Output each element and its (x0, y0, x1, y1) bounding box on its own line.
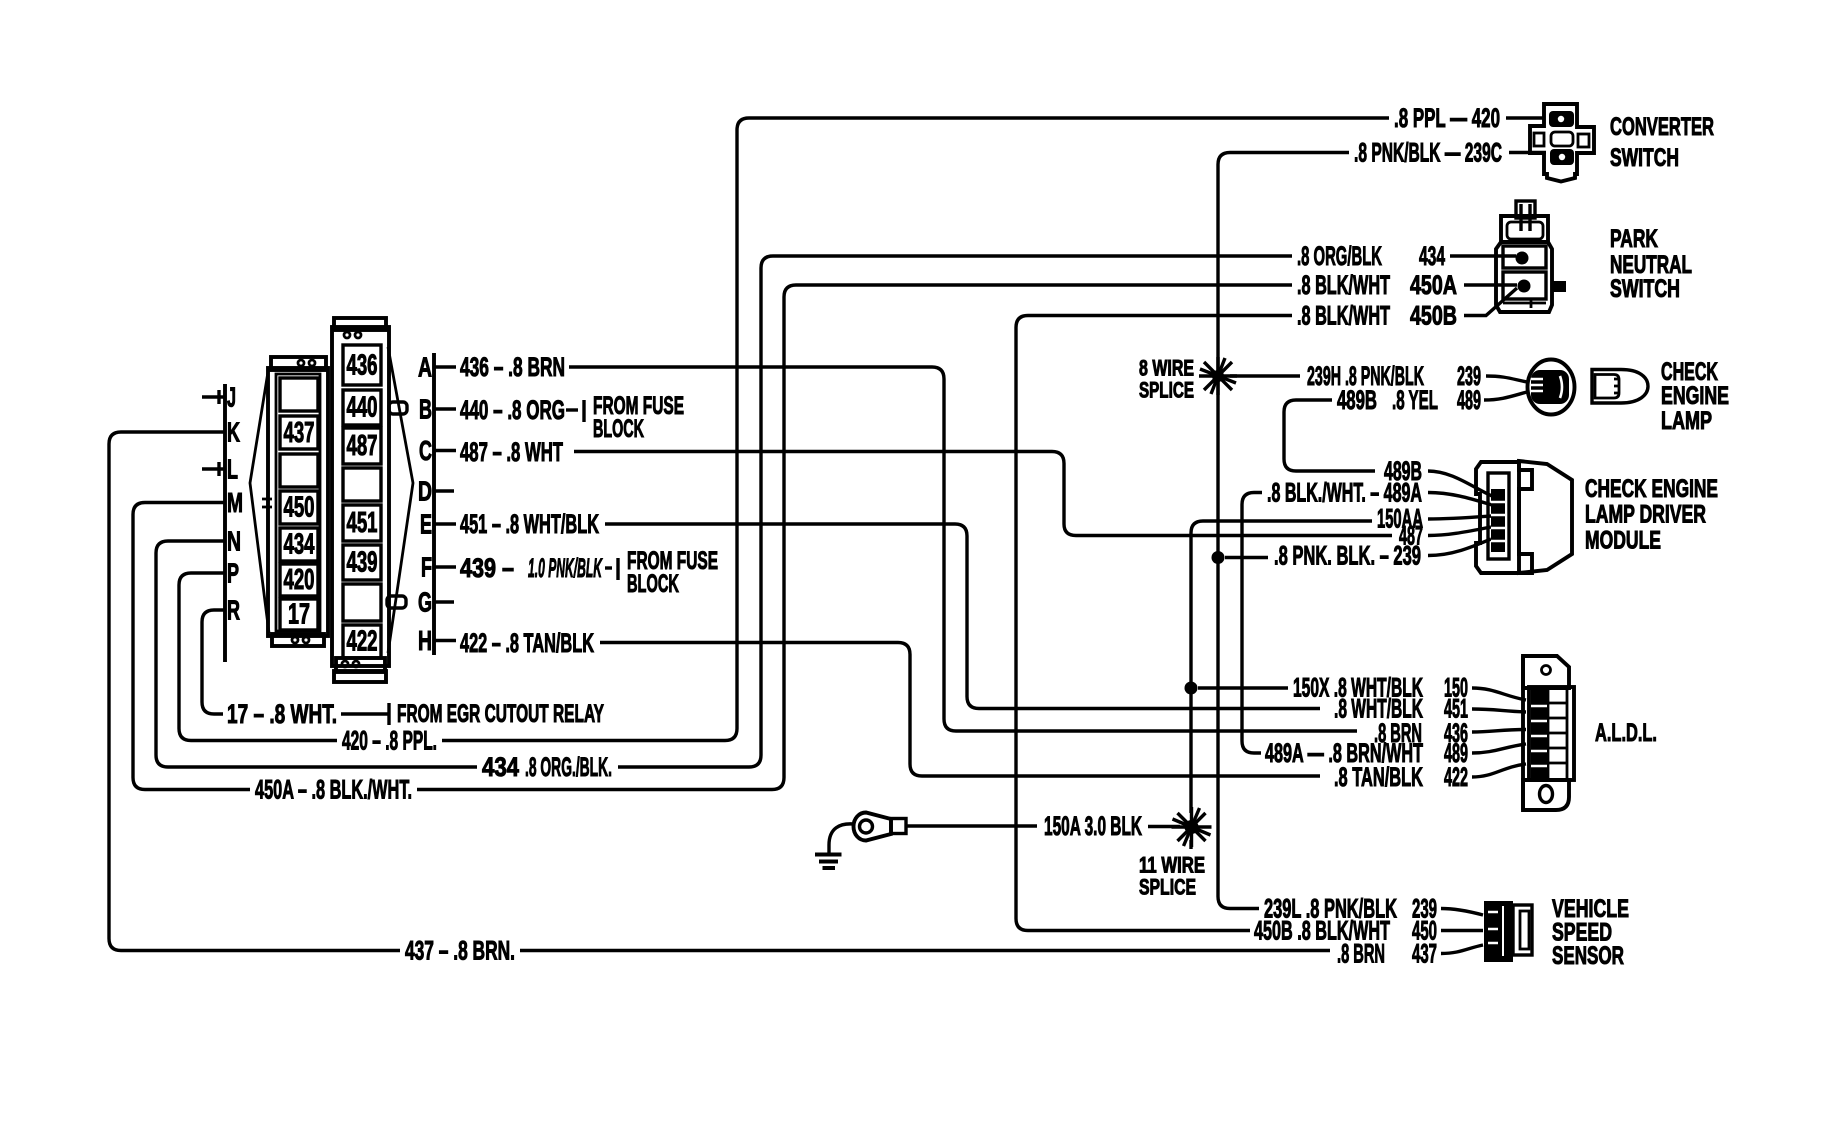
svg-text:N: N (227, 526, 241, 557)
svg-text:PARK: PARK (1610, 225, 1658, 253)
svg-text:SPLICE: SPLICE (1139, 378, 1194, 403)
svg-text:R: R (227, 595, 240, 626)
svg-text:BLOCK: BLOCK (627, 570, 679, 598)
svg-text:G: G (418, 587, 432, 618)
svg-text:489B: 489B (1337, 385, 1377, 415)
svg-text:434: 434 (482, 752, 519, 782)
svg-text:C: C (419, 435, 432, 466)
svg-text:.8 TAN/BLK: .8 TAN/BLK (1334, 762, 1423, 792)
svg-text:434: 434 (1419, 241, 1445, 271)
svg-text:489: 489 (1457, 385, 1481, 415)
svg-text:451 – .8 WHT/BLK: 451 – .8 WHT/BLK (460, 509, 599, 539)
svg-text:B: B (419, 394, 432, 425)
svg-text:.8 PPL — 420: .8 PPL — 420 (1394, 103, 1500, 133)
svg-text:450B: 450B (1410, 301, 1457, 331)
svg-text:CHECK ENGINE: CHECK ENGINE (1585, 475, 1718, 503)
svg-text:A: A (418, 352, 432, 383)
svg-text:436 – .8 BRN: 436 – .8 BRN (460, 352, 565, 382)
svg-text:SPLICE: SPLICE (1139, 875, 1196, 900)
svg-text:.8 BLK/WHT: .8 BLK/WHT (1297, 270, 1390, 300)
svg-text:451: 451 (347, 507, 378, 539)
svg-text:SENSOR: SENSOR (1552, 942, 1624, 970)
svg-text:CONVERTER: CONVERTER (1610, 113, 1714, 141)
svg-text:.8 BRN: .8 BRN (1337, 939, 1385, 969)
svg-text:440: 440 (347, 392, 378, 424)
svg-text:437 – .8 BRN.: 437 – .8 BRN. (405, 936, 515, 966)
svg-text:F: F (421, 552, 432, 583)
svg-text:420 – .8 PPL.: 420 – .8 PPL. (342, 726, 437, 756)
svg-text:.8 BLK/WHT: .8 BLK/WHT (1297, 301, 1390, 331)
svg-text:422: 422 (1444, 762, 1468, 792)
svg-text:M: M (227, 487, 243, 518)
svg-text:D: D (418, 476, 432, 507)
svg-text:.8 YEL: .8 YEL (1392, 385, 1438, 415)
svg-text:LAMP: LAMP (1661, 407, 1712, 435)
svg-text:450: 450 (284, 492, 315, 524)
svg-text:ENGINE: ENGINE (1661, 382, 1729, 410)
svg-text:437: 437 (284, 417, 315, 449)
svg-text:L: L (227, 454, 238, 485)
svg-text:487: 487 (347, 430, 378, 462)
svg-text:437: 437 (1412, 939, 1437, 969)
svg-text:434: 434 (284, 529, 315, 561)
svg-text:.8 ORG./BLK.: .8 ORG./BLK. (525, 752, 612, 782)
svg-text:487 – .8 WHT: 487 – .8 WHT (460, 437, 563, 467)
svg-text:420: 420 (284, 564, 315, 596)
svg-text:439 –: 439 – (460, 553, 514, 583)
svg-text:440 – .8 ORG: 440 – .8 ORG (460, 395, 565, 425)
svg-text:422: 422 (347, 626, 378, 658)
svg-text:MODULE: MODULE (1585, 527, 1661, 555)
svg-text:BLOCK: BLOCK (593, 415, 644, 443)
svg-text:17: 17 (288, 599, 310, 631)
svg-text:K: K (227, 417, 240, 448)
svg-text:FROM EGR CUTOUT RELAY: FROM EGR CUTOUT RELAY (397, 700, 604, 728)
svg-text:439: 439 (347, 547, 378, 579)
svg-text:A.L.D.L.: A.L.D.L. (1595, 719, 1657, 747)
svg-text:SWITCH: SWITCH (1610, 144, 1679, 172)
svg-text:.8 ORG/BLK: .8 ORG/BLK (1297, 241, 1382, 271)
svg-text:E: E (420, 509, 432, 540)
svg-text:P: P (227, 558, 239, 589)
svg-text:H: H (418, 625, 432, 656)
svg-text:SWITCH: SWITCH (1610, 275, 1680, 303)
svg-text:422 – .8 TAN/BLK: 422 – .8 TAN/BLK (460, 628, 594, 658)
svg-text:450A – .8 BLK./WHT.: 450A – .8 BLK./WHT. (255, 775, 412, 805)
svg-text:150A 3.0 BLK: 150A 3.0 BLK (1044, 811, 1142, 841)
svg-text:.8 PNK/BLK — 239C: .8 PNK/BLK — 239C (1354, 138, 1502, 168)
svg-text:436: 436 (347, 350, 378, 382)
svg-text:17 – .8 WHT.: 17 – .8 WHT. (227, 699, 337, 729)
svg-text:LAMP DRIVER: LAMP DRIVER (1585, 501, 1706, 529)
svg-text:J: J (227, 382, 236, 413)
svg-text:.8 PNK. BLK. – 239: .8 PNK. BLK. – 239 (1274, 541, 1421, 571)
svg-text:1.0 PNK/BLK: 1.0 PNK/BLK (528, 553, 603, 583)
svg-text:450A: 450A (1410, 270, 1457, 300)
